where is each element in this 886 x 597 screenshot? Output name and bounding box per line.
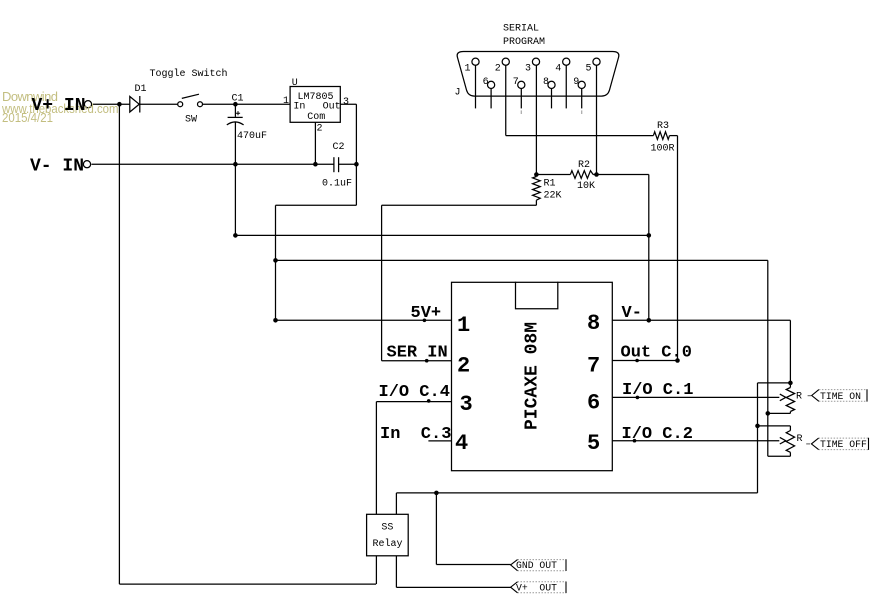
node SER IN label anchor [425, 359, 429, 363]
junction 5V branch to trimmers [273, 258, 278, 263]
wire serial pin5 to R2 [596, 65, 598, 174]
wire relay bottom-right to V+ OUT [395, 556, 397, 588]
junction R2 right / serial pin5 [594, 172, 599, 177]
svg-text:2: 2 [317, 124, 323, 135]
svg-text:R: R [797, 434, 803, 445]
connector pin circles top row 1-5 [472, 58, 479, 65]
wire R3 to pin7 [670, 135, 678, 137]
wire V+ vertical down left [118, 104, 120, 584]
IC U1 PICAXE 08M box [452, 282, 613, 471]
junction GND OUT branch [434, 491, 439, 496]
svg-text:I/O C.1: I/O C.1 [622, 381, 693, 400]
wire V- branch to pot tops [758, 382, 791, 384]
wire 7805 out [340, 103, 356, 105]
wire ground x235 down and y235 rail [234, 164, 236, 235]
resistor R2 [570, 171, 593, 179]
wire pin3 I/O C.4 [376, 401, 451, 403]
svg-text:R: R [796, 392, 802, 403]
junction C1 top [233, 102, 238, 107]
svg-text:In: In [293, 102, 305, 113]
capacitor C1 [228, 116, 243, 118]
svg-text:1: 1 [457, 313, 470, 338]
svg-text:C1: C1 [232, 93, 244, 104]
svg-text:6: 6 [587, 390, 600, 415]
svg-text:1: 1 [465, 64, 471, 75]
wire V+ bottom horizontal to relay [119, 583, 376, 585]
svg-text:3: 3 [460, 392, 473, 417]
svg-text:8: 8 [543, 77, 549, 88]
svg-text:SERIAL: SERIAL [503, 23, 539, 34]
junction C1 bottom on V- rail [233, 162, 238, 167]
wire pin7 Out C.0 [612, 360, 677, 362]
svg-text:9: 9 [573, 77, 579, 88]
svg-text:Out C.0: Out C.0 [621, 343, 692, 362]
svg-text:D1: D1 [135, 84, 147, 95]
wire 5V net to pin1 [276, 204, 357, 206]
svg-text:2: 2 [457, 353, 470, 378]
svg-text:5: 5 [587, 431, 600, 456]
flag GND OUT [511, 559, 566, 571]
wire pin4 In C.3 stub [428, 440, 451, 442]
svg-text:5V+: 5V+ [411, 304, 442, 323]
wire pin6 I/O C.1 [612, 396, 779, 398]
node I/O C.2 label anchor [633, 439, 637, 443]
flag V+ OUT [511, 582, 566, 594]
resistor R3 [653, 132, 669, 140]
svg-text:SER IN: SER IN [387, 343, 448, 362]
wire R1 bottom to SER IN [535, 200, 537, 205]
node Out C.0 label anchor [635, 359, 639, 363]
svg-text:5: 5 [586, 64, 592, 75]
node I/O C.1 label anchor [636, 396, 640, 400]
capacitor C2 [333, 157, 335, 172]
trimmer R TIME ON [786, 388, 794, 412]
wire 5V y260 rail to pots [276, 259, 768, 261]
trimmer R TIME OFF [786, 431, 794, 453]
junction R1 top / R2 left [534, 172, 539, 177]
junction Com pin on V- rail [313, 162, 318, 167]
svg-text:SS: SS [381, 523, 393, 534]
wire pin8 V- [612, 319, 790, 321]
svg-text:I/O C.4: I/O C.4 [379, 383, 450, 402]
svg-text:100R: 100R [651, 143, 675, 154]
svg-text:R1: R1 [544, 179, 556, 190]
wire serial pin2 to R3 [505, 65, 507, 135]
svg-text:TIME ON: TIME ON [820, 391, 861, 402]
wire GND OUT branch [435, 493, 437, 565]
svg-text:2: 2 [495, 64, 501, 75]
regulator U LM7805 box [290, 87, 340, 123]
svg-text:3: 3 [525, 64, 531, 75]
junction TIME ON trimmer bottom [766, 411, 771, 416]
junction V- rail / R2 drop [647, 233, 652, 238]
toggle switch SW [178, 102, 183, 107]
connector J serial outline [457, 52, 619, 97]
svg-text:GND OUT: GND OUT [516, 560, 557, 571]
connector pin circles bottom row 6-9 [488, 81, 495, 88]
svg-text:3: 3 [343, 97, 349, 108]
resistor R1 [533, 177, 541, 201]
wire V- rail [92, 163, 334, 165]
wire 7805 com [314, 122, 316, 164]
wire R1 top to R2 left [536, 174, 570, 176]
svg-text:R3: R3 [657, 121, 669, 132]
svg-text:U: U [292, 78, 298, 89]
svg-text:0.1uF: 0.1uF [322, 179, 352, 190]
wire R2 right down to V- pin8 [593, 174, 649, 176]
svg-text:In C.3: In C.3 [380, 425, 451, 444]
svg-text:PICAXE 08M: PICAXE 08M [523, 322, 543, 430]
svg-text:C2: C2 [333, 142, 345, 153]
terminal V+ IN [84, 101, 91, 108]
svg-text:J: J [455, 87, 461, 98]
junction R3 at pin7 wire [675, 358, 680, 363]
svg-text:8: 8 [587, 311, 600, 336]
wire V- down to relay line [757, 426, 759, 493]
svg-text:PROGRAM: PROGRAM [503, 37, 545, 48]
svg-text:V+ IN: V+ IN [32, 96, 86, 116]
svg-text:1: 1 [283, 96, 289, 107]
wire pin5 I/O C.2 [612, 440, 779, 442]
connector pin stubs [476, 65, 582, 114]
svg-text:4: 4 [555, 64, 561, 75]
svg-text:SW: SW [185, 115, 197, 126]
wire pot TIME ON leads [789, 383, 791, 388]
svg-text:R2: R2 [578, 160, 590, 171]
relay box SS Relay [367, 514, 409, 556]
svg-text:V-: V- [622, 304, 642, 323]
svg-text:Com: Com [307, 112, 325, 123]
node I/O C.4 label anchor [427, 399, 431, 403]
wire pot TIME OFF bottom [789, 452, 791, 456]
svg-text:10K: 10K [577, 181, 595, 192]
junction V- rail corner [233, 233, 238, 238]
junction 5V at pin1 wire [273, 318, 278, 323]
svg-text:22K: 22K [544, 191, 562, 202]
node 5V+ label anchor [423, 319, 427, 323]
wire V+ top rail [92, 103, 130, 105]
wire C1 leads [234, 104, 236, 117]
flag TIME OFF [806, 438, 868, 450]
junction V- branch to TIME OFF top [755, 424, 760, 429]
wire serial pin3 to R1 [535, 65, 537, 176]
svg-text:4: 4 [455, 431, 468, 456]
svg-text:V- IN: V- IN [30, 157, 84, 177]
svg-text:Relay: Relay [373, 538, 403, 550]
svg-text:7: 7 [587, 353, 600, 378]
svg-text:TIME OFF: TIME OFF [820, 439, 867, 450]
diode D1 [130, 97, 139, 113]
svg-text:Toggle Switch: Toggle Switch [150, 68, 228, 80]
junction V+ at D1 branch [117, 102, 122, 107]
flag TIME ON [808, 389, 867, 402]
svg-text:I/O C.2: I/O C.2 [622, 425, 693, 444]
junction V- at trimmer tops [788, 381, 793, 386]
svg-text:7: 7 [513, 77, 519, 88]
svg-text:470uF: 470uF [237, 131, 267, 142]
svg-text:V+ OUT: V+ OUT [516, 582, 557, 593]
svg-text:6: 6 [483, 77, 489, 88]
svg-text:Out: Out [323, 102, 341, 113]
junction V- at pin8 wire [647, 318, 652, 323]
junction C2 right [354, 162, 359, 167]
terminal V- IN [83, 161, 90, 168]
